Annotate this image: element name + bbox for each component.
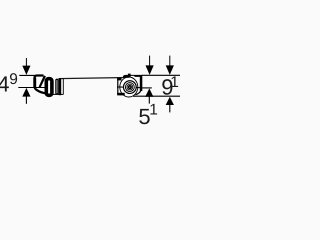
svg-text:1: 1 [149, 102, 158, 119]
right fitting: big circle body [120, 77, 138, 97]
left fitting: elbow body [34, 76, 46, 94]
dimension extension line top right [142, 74, 180, 76]
right fitting: rod clamp bar [117, 78, 121, 81]
right fitting: bottom right arc [136, 91, 141, 95]
right fitting: center line [117, 86, 141, 89]
dim 5.1: stem top [149, 56, 151, 67]
right fitting: ring 3 [127, 84, 133, 90]
svg-text:1: 1 [170, 74, 179, 91]
right fitting: ring 1 [124, 81, 137, 94]
left fitting: flange disc [46, 79, 52, 96]
dimension 4.9 left: up arrowhead [22, 88, 30, 97]
dim 9.1: stem bottom [169, 105, 171, 113]
left fitting: cylinder right edge [62, 78, 64, 94]
right fitting: ring 2 [125, 83, 134, 92]
svg-text:4: 4 [0, 72, 9, 97]
right fitting: top cap [123, 75, 142, 78]
left fitting: elbow left edge thickening [34, 78, 37, 88]
right fitting: bottom foot [117, 93, 125, 96]
dimension 4.9 left: lower extension tick [18, 87, 36, 89]
dimension 4.9 left: stem bottom [25, 96, 27, 104]
dimension extension line bottom right [133, 95, 180, 97]
dim 9.1: down arrowhead [166, 65, 174, 75]
dimension 4.9 left: down arrowhead [22, 66, 30, 75]
dimension 4.9 left: stem top [25, 58, 27, 67]
left fitting: center line through elbow [34, 87, 45, 89]
right fitting: ring 4 center [129, 86, 132, 89]
left fitting: end bar [59, 78, 62, 95]
dim 9.1: up arrowhead [166, 97, 174, 105]
right fitting: right bar [140, 77, 143, 92]
right fitting: bracket left edge [117, 78, 119, 95]
left fitting: cylinder bottom edge [53, 93, 64, 95]
dim 5.1: down arrowhead [146, 65, 154, 75]
right fitting: cap hump [128, 74, 131, 76]
dimension 4.9 left: upper extension tick [19, 74, 35, 76]
dimension extension line mid right [141, 87, 152, 89]
dim 5.1: stem bottom [148, 96, 150, 103]
dim 5.1: up arrowhead [145, 88, 153, 96]
dim 9.1: stem top [169, 56, 171, 67]
rod / wire [59, 78, 129, 79]
svg-text:9: 9 [9, 71, 18, 88]
left fitting: inner ellipse [56, 79, 58, 94]
left fitting: elbow seam line [40, 76, 45, 87]
